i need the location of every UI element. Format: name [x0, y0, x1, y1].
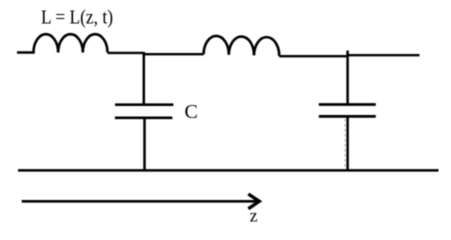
arrow shaft (z axis) — [22, 200, 258, 203]
wire node 1 to L2 — [143, 53, 204, 55]
node 1 stem — [143, 52, 146, 104]
node 2 stem — [346, 51, 349, 105]
capacitor C2 top plate — [319, 103, 376, 106]
capacitor C1 lower stem — [143, 118, 146, 171]
arrow head — [248, 194, 259, 209]
wire L1 to node 1 — [108, 52, 145, 54]
wire L2 to node 2 — [279, 55, 347, 57]
capacitor C1 top plate — [115, 103, 173, 106]
bottom rail wire — [18, 169, 439, 172]
capacitor C2 lower stem — [346, 117, 349, 171]
inductor L2 — [204, 36, 280, 56]
inductor L1 — [17, 34, 107, 52]
svg-text:L = L(z, t): L = L(z, t) — [41, 7, 113, 29]
capacitor C2 bottom plate — [319, 115, 376, 118]
wire node 2 to right end — [347, 54, 420, 56]
capacitor C1 bottom plate — [115, 116, 172, 119]
svg-text:C: C — [185, 101, 198, 123]
svg-text:z: z — [250, 206, 258, 226]
ghost dashed line at node 2 — [344, 119, 346, 168]
